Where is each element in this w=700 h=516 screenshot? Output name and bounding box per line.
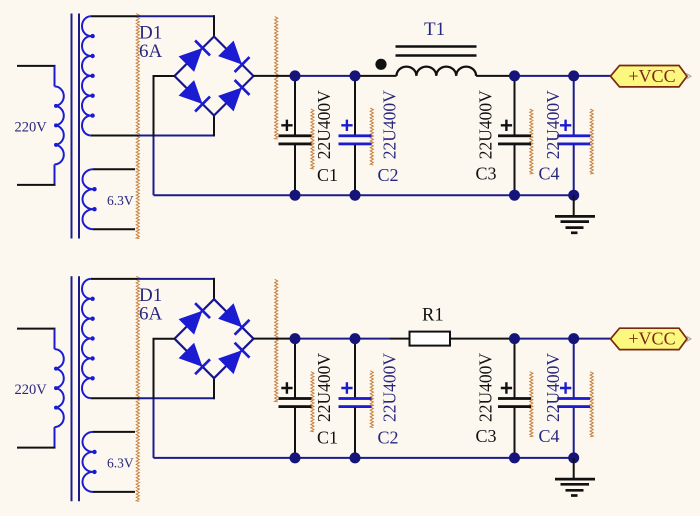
capacitor C3 (lower) plates bbox=[498, 397, 531, 400]
capacitor C3 (lower) bottom lead bbox=[514, 408, 516, 458]
power port +VCC bbox=[611, 66, 688, 87]
junction dots negative rail (lower) bbox=[290, 452, 301, 463]
capacitor C1 bottom lead bbox=[294, 145, 296, 195]
wire 6.3V bottom stub bbox=[93, 228, 135, 230]
transformer 6.3V winding bbox=[83, 169, 93, 229]
diode upper-right bbox=[218, 41, 242, 65]
diode upper-left (lower) bbox=[179, 311, 203, 335]
transformer 6.3V winding (lower) bbox=[83, 432, 93, 492]
capacitor C3 (lower) polarity plus bbox=[501, 382, 512, 393]
capacitor C2 (lower) plates bbox=[339, 397, 372, 400]
inductor T1 winding bbox=[397, 67, 477, 76]
wire rail navy segment to port bbox=[515, 75, 612, 77]
transformer primary winding bbox=[55, 86, 64, 164]
capacitor C2 top lead bbox=[354, 76, 356, 135]
svg-text:C4: C4 bbox=[539, 426, 560, 446]
bridge rectifier D1 diamond (lower) bbox=[175, 299, 254, 378]
svg-text:R1: R1 bbox=[422, 306, 444, 326]
svg-text:220V: 220V bbox=[15, 120, 48, 136]
zigzag artifact column x312 bbox=[311, 109, 314, 169]
capacitor C1 (lower) top lead bbox=[294, 339, 296, 398]
capacitor C3 bottom lead bbox=[514, 145, 516, 195]
zigzag artifact column x372 bbox=[370, 108, 373, 165]
wire secondary top lead (lower) bbox=[91, 278, 137, 280]
capacitor C4 polarity plus bbox=[560, 120, 571, 131]
svg-text:22U400V: 22U400V bbox=[314, 90, 334, 159]
svg-text:C3: C3 bbox=[476, 164, 497, 184]
junction dots positive rail bbox=[290, 70, 301, 81]
wire secondary top lead bbox=[91, 15, 137, 17]
capacitor C1 plates bbox=[279, 134, 312, 137]
wire down to bridge top vertex bbox=[213, 15, 215, 36]
svg-text:22U400V: 22U400V bbox=[314, 353, 334, 422]
capacitor C2 (lower) bottom lead bbox=[354, 408, 356, 458]
zigzag artifact column x531 bbox=[530, 109, 533, 174]
capacitor C4 (lower) polarity plus bbox=[560, 382, 571, 393]
power port +VCC (lower) bbox=[611, 328, 688, 349]
wire bridge bottom vertex to AC lead (lower) bbox=[213, 378, 215, 399]
svg-text:6A: 6A bbox=[139, 304, 163, 325]
wire left branch to bottom rail bbox=[153, 137, 155, 196]
transformer primary top stub (lower) bbox=[17, 328, 56, 330]
wire rail navy segment to port (lower) bbox=[515, 338, 612, 340]
svg-text:22U400V: 22U400V bbox=[380, 353, 400, 422]
capacitor C4 (lower) bottom lead bbox=[573, 408, 575, 458]
svg-text:6A: 6A bbox=[139, 41, 163, 62]
zigzag artifact column x531 (lower) bbox=[530, 372, 533, 437]
wire negative bottom rail bbox=[154, 194, 574, 196]
zigzag artifact column x592 bbox=[590, 109, 593, 174]
transformer primary bottom stub bbox=[54, 164, 56, 185]
svg-text:+VCC: +VCC bbox=[628, 329, 675, 349]
svg-text:C1: C1 bbox=[317, 428, 338, 448]
zigzag artifact column x138 bbox=[136, 14, 139, 239]
wire secondary bottom lead bbox=[91, 135, 138, 137]
wire positive rail from bridge (lower) bbox=[254, 338, 296, 340]
wire rail navy segment (lower) bbox=[295, 338, 390, 340]
svg-text:220V: 220V bbox=[15, 382, 48, 398]
transformer primary winding (lower) bbox=[55, 349, 64, 427]
wire bridge bottom vertex to AC lead bbox=[213, 116, 215, 137]
capacitor C1 top lead bbox=[294, 76, 296, 135]
diode upper-left bbox=[179, 48, 203, 72]
capacitor C4 plates bbox=[557, 134, 590, 137]
wire 6.3V bottom stub (lower) bbox=[93, 491, 135, 493]
zigzag artifact column x312 (lower) bbox=[311, 372, 314, 432]
wire down to bridge top vertex (lower) bbox=[213, 278, 215, 299]
capacitor C3 polarity plus bbox=[501, 120, 512, 131]
diode lower-right bbox=[218, 88, 242, 112]
port arrow artifact bbox=[686, 73, 691, 79]
wire rail R1 to C3 (lower) bbox=[450, 338, 515, 340]
transformer core (lower) bbox=[71, 276, 73, 501]
zigzag artifact column x138 (lower) bbox=[136, 276, 139, 501]
wire positive rail from bridge bbox=[254, 75, 296, 77]
capacitor C4 (lower) plates bbox=[557, 397, 590, 400]
inductor T1 core bars bbox=[396, 45, 477, 47]
transformer secondary winding (lower) bbox=[82, 279, 91, 398]
port arrow artifact (lower) bbox=[686, 336, 691, 342]
capacitor C4 (lower) top lead bbox=[573, 339, 575, 398]
wire left branch to bottom rail (lower) bbox=[153, 399, 155, 458]
svg-text:C3: C3 bbox=[476, 426, 497, 446]
ground symbol (lower) bbox=[573, 458, 575, 479]
junction dots negative rail bbox=[290, 190, 301, 201]
capacitor C4 bottom lead bbox=[573, 145, 575, 195]
capacitor C3 top lead bbox=[514, 76, 516, 135]
bridge rectifier D1 diamond bbox=[175, 37, 254, 116]
svg-text:22U400V: 22U400V bbox=[476, 90, 496, 159]
capacitor C4 top lead bbox=[573, 76, 575, 135]
diode lower-left bbox=[179, 80, 203, 104]
svg-text:22U400V: 22U400V bbox=[476, 353, 496, 422]
transformer core bbox=[71, 14, 73, 239]
capacitor C2 (lower) polarity plus bbox=[341, 382, 352, 393]
wire bridge left vertex branch bbox=[154, 76, 175, 137]
svg-text:T1: T1 bbox=[424, 19, 445, 40]
capacitor C1 (lower) plates bbox=[279, 397, 312, 400]
capacitor C2 (lower) top lead bbox=[354, 339, 356, 398]
diode upper-right (lower) bbox=[218, 303, 242, 327]
capacitor C2 polarity plus bbox=[341, 120, 352, 131]
capacitor C1 polarity plus bbox=[281, 120, 292, 131]
wire rail navy segment bbox=[295, 75, 355, 77]
wire rail segment to inductor bbox=[355, 75, 397, 77]
wire 6.3V top stub (lower) bbox=[93, 431, 135, 433]
wire rail segment to resistor (lower) bbox=[390, 338, 410, 340]
svg-text:22U400V: 22U400V bbox=[543, 353, 563, 422]
capacitor C1 (lower) polarity plus bbox=[281, 382, 292, 393]
diode lower-left (lower) bbox=[179, 343, 203, 367]
zigzag artifact column x276 (lower) bbox=[275, 279, 278, 401]
resistor R1 bbox=[410, 332, 451, 346]
capacitor C1 (lower) bottom lead bbox=[294, 408, 296, 458]
svg-text:C1: C1 bbox=[317, 165, 338, 185]
transformer primary top stub bbox=[17, 65, 56, 67]
transformer secondary winding bbox=[82, 16, 91, 135]
svg-text:22U400V: 22U400V bbox=[543, 90, 563, 159]
svg-text:6.3V: 6.3V bbox=[107, 193, 134, 208]
capacitor C2 bottom lead bbox=[354, 145, 356, 195]
junction dots positive rail (lower) bbox=[290, 333, 301, 344]
wire rail inductor to C3 bbox=[476, 75, 514, 77]
wire 6.3V top stub bbox=[93, 168, 135, 170]
diode lower-right (lower) bbox=[218, 350, 242, 374]
capacitor C3 plates bbox=[498, 134, 531, 137]
transformer primary bottom stub (lower) bbox=[54, 427, 56, 448]
svg-text:+VCC: +VCC bbox=[628, 66, 675, 86]
wire bridge left vertex branch (lower) bbox=[154, 339, 175, 400]
zigzag artifact column x276 bbox=[275, 17, 278, 139]
capacitor C3 (lower) top lead bbox=[514, 339, 516, 398]
svg-text:C2: C2 bbox=[378, 428, 399, 448]
inductor T1 phase dot bbox=[375, 59, 386, 70]
zigzag artifact column x592 (lower) bbox=[590, 372, 593, 437]
svg-text:C2: C2 bbox=[378, 165, 399, 185]
ground symbol bbox=[573, 195, 575, 216]
svg-text:22U400V: 22U400V bbox=[380, 90, 400, 159]
capacitor C2 plates bbox=[339, 134, 372, 137]
svg-text:6.3V: 6.3V bbox=[107, 456, 134, 471]
zigzag artifact column x372 (lower) bbox=[370, 371, 373, 428]
wire secondary bottom lead (lower) bbox=[91, 397, 138, 399]
svg-text:C4: C4 bbox=[539, 164, 560, 184]
wire negative bottom rail (lower) bbox=[154, 457, 574, 459]
